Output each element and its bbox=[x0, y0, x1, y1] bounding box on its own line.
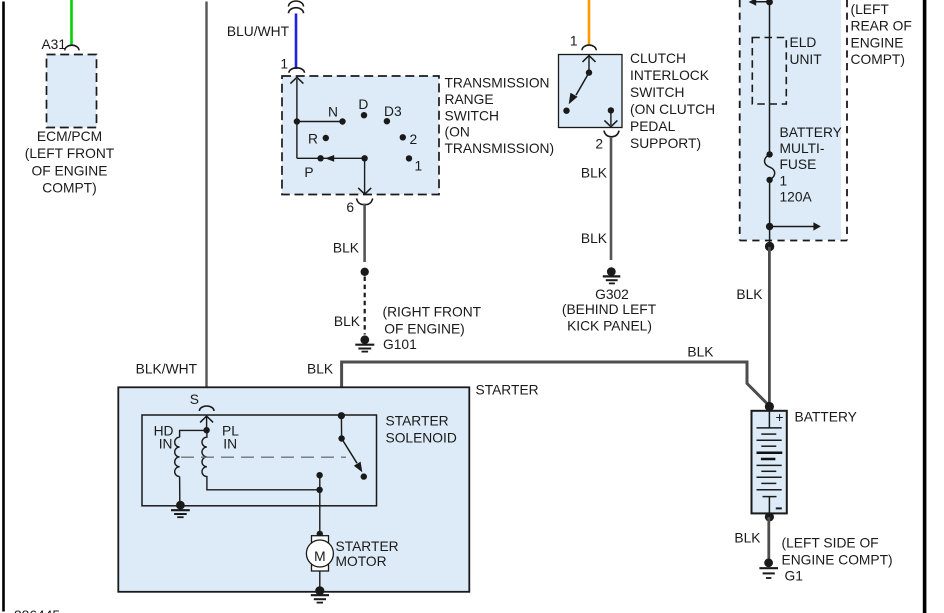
svg-text:MOTOR: MOTOR bbox=[336, 554, 387, 569]
starter solenoid box bbox=[142, 415, 377, 506]
starter box bbox=[118, 387, 469, 592]
svg-text:CLUTCH: CLUTCH bbox=[630, 51, 686, 66]
svg-text:STARTER: STARTER bbox=[336, 539, 399, 554]
svg-text:UNIT: UNIT bbox=[790, 52, 823, 67]
PL coil L2 bbox=[202, 430, 320, 489]
transmission range switch caption bbox=[445, 76, 555, 157]
arrow up (clutch pin 1) bbox=[583, 56, 596, 62]
svg-text:+: + bbox=[775, 410, 783, 425]
svg-text:(ON: (ON bbox=[445, 125, 470, 140]
svg-text:120A: 120A bbox=[780, 190, 813, 205]
svg-text:COMPT): COMPT) bbox=[851, 52, 905, 67]
engine compartment box dashed border bbox=[740, 0, 847, 241]
fuse F1 bottom dot bbox=[766, 177, 772, 183]
solenoid S input arrow bbox=[200, 416, 213, 430]
svg-text:R: R bbox=[308, 132, 318, 147]
solenoid switch pivot dot bbox=[338, 435, 344, 441]
terminal S connector arc bbox=[199, 406, 214, 411]
engine compartment caption bbox=[851, 2, 912, 67]
svg-text:BLK: BLK bbox=[334, 314, 361, 329]
svg-text:BLK: BLK bbox=[687, 345, 714, 360]
frame right border bbox=[923, 0, 927, 613]
wire through ELD to fuse bbox=[753, 0, 773, 154]
arrow up at pin 1 bbox=[290, 77, 303, 83]
ELD unit box bbox=[752, 38, 786, 105]
contact 2 bbox=[400, 134, 406, 140]
svg-text:ENGINE COMPT): ENGINE COMPT) bbox=[782, 552, 893, 567]
ground G101 bbox=[355, 335, 374, 351]
wire BLK starter to battery bbox=[342, 362, 770, 416]
fuse caption bbox=[780, 125, 842, 205]
svg-text:INTERLOCK: INTERLOCK bbox=[630, 68, 710, 83]
splice dot bbox=[361, 268, 369, 276]
pin 2 connector arc bbox=[604, 131, 619, 137]
contact D bbox=[361, 112, 367, 118]
ECM/PCM box bbox=[47, 55, 97, 128]
svg-text:S: S bbox=[190, 392, 199, 407]
svg-text:IN: IN bbox=[223, 437, 237, 452]
svg-text:1: 1 bbox=[280, 57, 288, 72]
battery negative node dot bbox=[765, 512, 774, 521]
wire ORN bbox=[588, 0, 591, 45]
svg-text:SWITCH: SWITCH bbox=[630, 85, 684, 100]
starter solenoid caption bbox=[386, 414, 457, 446]
svg-text:(BEHIND LEFT: (BEHIND LEFT bbox=[562, 302, 657, 317]
svg-text:ECM/PCM: ECM/PCM bbox=[37, 129, 102, 144]
svg-text:M: M bbox=[314, 549, 326, 564]
svg-text:D: D bbox=[358, 97, 368, 112]
svg-text:886445: 886445 bbox=[14, 608, 60, 613]
svg-text:1: 1 bbox=[570, 34, 578, 49]
svg-text:STARTER: STARTER bbox=[476, 383, 539, 398]
svg-text:SOLENOID: SOLENOID bbox=[386, 431, 457, 446]
contact P bbox=[317, 155, 323, 161]
svg-text:(ON CLUTCH: (ON CLUTCH bbox=[630, 102, 715, 117]
arrow down (clutch pin 2) bbox=[604, 120, 617, 126]
wire BLK from pin 2 bbox=[610, 137, 613, 260]
solenoid input dot bbox=[203, 427, 209, 433]
contact N bbox=[339, 118, 345, 124]
svg-text:RANGE: RANGE bbox=[445, 92, 494, 107]
battery minus label bbox=[776, 507, 782, 509]
branch arrow right bbox=[770, 222, 821, 230]
svg-text:(LEFT FRONT: (LEFT FRONT bbox=[25, 146, 115, 161]
wire dashed to G101 bbox=[364, 277, 366, 335]
svg-text:2: 2 bbox=[410, 132, 418, 147]
HD coil ground wire bbox=[179, 477, 181, 502]
fuse F1 top dot bbox=[766, 151, 772, 157]
connector A31 arc bbox=[65, 45, 79, 50]
clutch pivot dot bbox=[586, 69, 592, 75]
HD coil L1 bbox=[175, 437, 180, 476]
svg-text:(LEFT: (LEFT bbox=[851, 2, 890, 17]
contact R bbox=[323, 135, 329, 141]
svg-text:P: P bbox=[304, 165, 313, 180]
svg-text:STARTER: STARTER bbox=[386, 414, 449, 429]
battery plates bbox=[757, 411, 783, 514]
fuse F1 element bbox=[765, 154, 775, 180]
ground (HD coil) bbox=[171, 501, 190, 517]
junction dot on left leg bbox=[294, 118, 300, 124]
svg-text:OF ENGINE: OF ENGINE bbox=[32, 163, 108, 178]
ground G1 bbox=[759, 558, 778, 578]
svg-text:SUPPORT): SUPPORT) bbox=[630, 136, 701, 151]
junction dot (fuse output) bbox=[766, 223, 773, 230]
off-page connector arcs (top) bbox=[289, 1, 304, 13]
contact D3 bbox=[384, 118, 390, 124]
clutch interlock switch box bbox=[559, 55, 623, 128]
solenoid blade arrow bbox=[354, 462, 363, 473]
engine compartment box fill bbox=[740, 0, 841, 240]
svg-text:BATTERY: BATTERY bbox=[795, 409, 857, 424]
svg-text:2: 2 bbox=[595, 137, 603, 152]
PL label bbox=[222, 423, 239, 451]
ground G302 bbox=[603, 267, 621, 283]
pin 1 connector arc bbox=[289, 68, 305, 73]
HD coil feed wire bbox=[180, 430, 207, 437]
starter motor caption bbox=[336, 539, 399, 569]
svg-text:TRANSMISSION): TRANSMISSION) bbox=[445, 141, 555, 156]
svg-text:BLK: BLK bbox=[307, 362, 334, 377]
clutch switch pole wire bbox=[588, 57, 590, 73]
svg-text:SWITCH: SWITCH bbox=[445, 108, 499, 123]
svg-text:N: N bbox=[328, 105, 338, 120]
battery box bbox=[752, 411, 787, 514]
svg-text:G1: G1 bbox=[785, 569, 803, 584]
wire BLK fuse to battery bbox=[768, 247, 771, 406]
clutch interlock switch caption bbox=[630, 51, 715, 151]
svg-text:G302: G302 bbox=[595, 287, 629, 302]
solenoid contact dot (coil return) bbox=[316, 487, 322, 493]
solenoid battery input dot bbox=[338, 412, 345, 419]
pin 1 connector arc (clutch) bbox=[582, 45, 596, 50]
svg-text:REAR OF: REAR OF bbox=[851, 19, 912, 34]
clutch blade arrow bbox=[569, 93, 578, 105]
svg-text:1: 1 bbox=[415, 159, 423, 174]
svg-text:FUSE: FUSE bbox=[780, 157, 817, 172]
solenoid fixed contact dot bbox=[361, 473, 367, 479]
ELD unit caption bbox=[790, 35, 823, 67]
arrow left (off page top) bbox=[749, 0, 757, 6]
wire BLK/WHT vertical bbox=[205, 2, 207, 407]
wire to starter motor bbox=[319, 475, 321, 534]
clutch output dot bbox=[608, 107, 614, 113]
svg-text:TRANSMISSION: TRANSMISSION bbox=[445, 76, 550, 91]
solenoid switch wire bbox=[340, 416, 342, 439]
svg-text:BLU/WHT: BLU/WHT bbox=[227, 24, 290, 39]
solenoid link dashed bbox=[181, 456, 346, 458]
svg-text:(RIGHT FRONT: (RIGHT FRONT bbox=[383, 305, 482, 320]
svg-text:1: 1 bbox=[780, 173, 788, 188]
solenoid switch blade bbox=[342, 439, 357, 464]
arrow down at pin 6 bbox=[358, 188, 371, 194]
svg-text:BLK/WHT: BLK/WHT bbox=[136, 362, 198, 377]
svg-text:COMPT): COMPT) bbox=[42, 181, 96, 196]
clutch output wire bbox=[610, 110, 612, 125]
svg-text:G101: G101 bbox=[383, 337, 417, 352]
svg-text:BLK: BLK bbox=[581, 166, 608, 181]
wire BLK from pin 6 bbox=[363, 204, 366, 263]
svg-text:BLK: BLK bbox=[581, 231, 608, 246]
G1 caption bbox=[782, 535, 893, 583]
svg-text:OF ENGINE): OF ENGINE) bbox=[384, 322, 464, 337]
svg-text:BLK: BLK bbox=[736, 287, 763, 302]
svg-text:A31: A31 bbox=[41, 37, 66, 52]
G302 caption bbox=[562, 287, 657, 334]
starter motor M1 bbox=[306, 536, 333, 571]
pin 6 connector arc bbox=[357, 198, 373, 204]
clutch contact dot bbox=[563, 108, 569, 114]
svg-text:MULTI-: MULTI- bbox=[780, 141, 825, 156]
wire BLU/WHT bbox=[295, 14, 298, 70]
transmission range switch box bbox=[282, 76, 439, 195]
svg-text:BLK: BLK bbox=[734, 531, 761, 546]
wiper arrow pointing at P bbox=[325, 155, 334, 162]
svg-text:D3: D3 bbox=[384, 104, 402, 119]
svg-text:ENGINE: ENGINE bbox=[851, 35, 904, 50]
splice dot at box edge bbox=[765, 242, 774, 251]
svg-text:IN: IN bbox=[159, 437, 173, 452]
transmission range switch internal wires bbox=[297, 79, 365, 194]
solenoid contact dot (motor side top) bbox=[316, 472, 322, 478]
starter motor node dot bbox=[317, 531, 323, 537]
battery positive node dot bbox=[765, 402, 774, 411]
svg-text:(LEFT SIDE OF: (LEFT SIDE OF bbox=[782, 535, 879, 550]
wire fuse to junction bbox=[769, 180, 771, 247]
svg-text:6: 6 bbox=[346, 200, 354, 215]
wire BLK battery to G1 bbox=[767, 517, 770, 559]
svg-text:KICK PANEL): KICK PANEL) bbox=[567, 319, 652, 334]
clutch blade bbox=[576, 73, 589, 96]
G101 caption bbox=[383, 305, 482, 353]
starter motor ground wire bbox=[319, 571, 321, 588]
contact 1 bbox=[406, 155, 412, 161]
junction dot wiper bbox=[361, 155, 367, 161]
wire GRN A31 bbox=[70, 0, 73, 45]
svg-text:BATTERY: BATTERY bbox=[780, 125, 842, 140]
HD label bbox=[154, 423, 174, 451]
svg-text:ELD: ELD bbox=[790, 35, 817, 50]
ECM/PCM caption bbox=[25, 129, 115, 196]
frame left border bbox=[2, 2, 5, 612]
ground (starter motor) bbox=[311, 586, 329, 602]
svg-text:PEDAL: PEDAL bbox=[630, 119, 676, 134]
svg-text:BLK: BLK bbox=[333, 241, 360, 256]
